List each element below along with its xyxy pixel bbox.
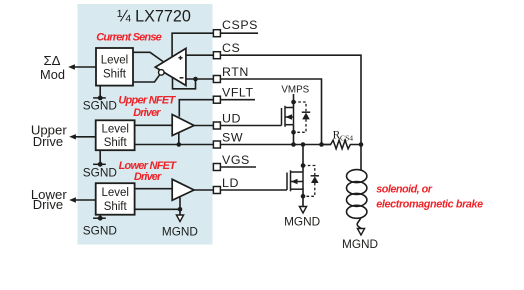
op-amp U1 current sense amp (155, 48, 186, 85)
svg-text:electromagnetic brake: electromagnetic brake (376, 199, 483, 211)
svg-text:Drive: Drive (33, 197, 63, 212)
node resistor right / CS drop (359, 142, 364, 147)
wire LS3 to driver3 input (135, 188, 173, 190)
wire Lower Drive input (73, 199, 96, 201)
ground MGND arrow driver3 (176, 215, 183, 222)
wire driver3 drop (179, 197, 181, 215)
wire feedback loop under op-amp (173, 78, 196, 89)
wire solenoid top lead (360, 145, 362, 171)
wire Q2 source to MGND (302, 188, 304, 206)
diode D1 (302, 112, 310, 119)
svg-text:Current Sense: Current Sense (96, 32, 161, 44)
pin VFLT (213, 96, 220, 103)
svg-text:CS4: CS4 (340, 133, 353, 142)
svg-text:SW: SW (222, 131, 243, 145)
svg-text:Drive: Drive (33, 134, 63, 149)
ground SGND 3 (83, 216, 117, 238)
wire SGND stub LS2 (99, 150, 101, 164)
svg-text:Shift: Shift (104, 137, 128, 149)
svg-text:CS: CS (222, 41, 240, 55)
wire CSPS stub right (220, 32, 258, 34)
pin RTN (213, 76, 220, 83)
wire LS1 to op-amp inverted output (bubble) (133, 75, 160, 82)
pin UD (213, 122, 220, 129)
wire SGND stub LS1 (99, 86, 101, 98)
svg-text:MGND: MGND (284, 215, 320, 229)
wire SGND stub LS3 (99, 215, 101, 219)
wire UD output from driver2 to gate of Q1 (194, 125, 282, 127)
driver buffer A3 (172, 179, 194, 200)
svg-text:SGND: SGND (83, 224, 117, 238)
svg-text:Shift: Shift (103, 69, 127, 81)
ground MGND arrow Q2 (299, 207, 306, 214)
wire RTN input to op-amp (186, 78, 214, 80)
level shift LS1 (96, 48, 133, 86)
node Q1 drain (291, 100, 296, 105)
node Q1 source (291, 130, 296, 135)
wire Q1 drain from VMPS (293, 94, 295, 108)
inversion bubble on U1 (159, 70, 165, 76)
transistor Q1 upper NFET (282, 106, 294, 127)
pin SW (213, 141, 220, 148)
node SW rail RTN drop (319, 142, 324, 147)
transistor Q2 lower NFET (287, 170, 303, 191)
svg-text:VMPS: VMPS (281, 85, 309, 96)
wire LS2 to driver2 input (135, 124, 173, 126)
wire RTN pin to SW rail drop (220, 79, 322, 145)
svg-text:RTN: RTN (222, 65, 249, 79)
svg-text:SGND: SGND (83, 99, 117, 113)
wire VFLT to upper driver (179, 100, 213, 117)
svg-text:UD: UD (222, 112, 241, 126)
level shift LS3 (96, 183, 135, 215)
Q2 body arrow (291, 179, 298, 185)
diode D2 (311, 176, 319, 183)
body diode D2 dashed loop (303, 166, 315, 197)
svg-text:LD: LD (222, 176, 239, 190)
driver buffer A2 (172, 115, 194, 136)
arrow to sigma-delta modulator (68, 64, 75, 69)
wire SW line from LS2 to rail (135, 144, 331, 146)
wire CSPS riser from op-amp to CSPS pin (172, 33, 213, 57)
wire VGS stub right (220, 166, 256, 168)
svg-text:Level: Level (101, 55, 129, 67)
pin CS (213, 52, 220, 59)
svg-text:Shift: Shift (104, 201, 128, 213)
pin VGS (213, 164, 220, 171)
wire driver2 reference drop (178, 133, 180, 145)
ground SGND 1 (83, 96, 117, 113)
inductor L1 solenoid (347, 170, 367, 229)
arrow Upper Drive input (69, 134, 76, 139)
wire LD output from driver3 to gate of Q2 (194, 189, 287, 191)
svg-text:MGND: MGND (342, 237, 378, 251)
svg-text:SGND: SGND (83, 166, 117, 180)
ground SGND 2 (83, 162, 117, 180)
svg-text:¼ LX7720: ¼ LX7720 (117, 7, 191, 25)
wire Upper Drive input (73, 136, 96, 138)
resistor RCS4 (322, 129, 362, 148)
svg-text:Level: Level (101, 187, 129, 199)
wire CS input to op-amp (186, 54, 214, 56)
pin squares and labels (213, 18, 258, 194)
svg-text:Driver: Driver (134, 171, 162, 183)
node driver3/MGND junction (178, 207, 183, 212)
body diode D1 dashed loop (294, 102, 307, 132)
svg-text:ΣΔ: ΣΔ (43, 53, 60, 68)
wire Q2 drain drop from SW rail (302, 145, 304, 173)
svg-text:Level: Level (101, 123, 129, 135)
svg-text:MGND: MGND (162, 224, 198, 238)
node SW rail at Q1 source (291, 142, 296, 147)
node Q2 source (301, 194, 306, 199)
node Q2 drain (301, 163, 306, 168)
svg-text:CSPS: CSPS (222, 18, 258, 32)
pin CSPS (213, 30, 220, 37)
ground MGND arrow solenoid (357, 229, 364, 236)
svg-text:Driver: Driver (133, 107, 161, 119)
node RTN feedback junction (193, 77, 198, 82)
level shift LS2 (96, 120, 135, 150)
pin LD (213, 187, 220, 194)
IC shaded panel (78, 4, 213, 245)
arrow Lower Drive input (69, 197, 76, 202)
wire CS pin to right rail (220, 55, 361, 144)
wire LS1 to op-amp output top (133, 52, 163, 61)
node driver2/SW junction (177, 142, 182, 147)
svg-text:Upper NFET: Upper NFET (118, 95, 176, 107)
wire Q1 source to SW rail (293, 125, 295, 145)
svg-text:VGS: VGS (222, 153, 250, 167)
wire driver3 reference to MGND (135, 208, 180, 210)
node SW rail Q2 branch (301, 142, 306, 147)
svg-text:VFLT: VFLT (222, 86, 254, 100)
Q1 body arrow (286, 114, 293, 120)
svg-text:solenoid, or: solenoid, or (376, 184, 432, 196)
svg-text:Mod: Mod (40, 67, 65, 82)
wire VFLT stub right (220, 99, 255, 101)
wire sigma-delta output from level shift LS1 (74, 66, 96, 68)
